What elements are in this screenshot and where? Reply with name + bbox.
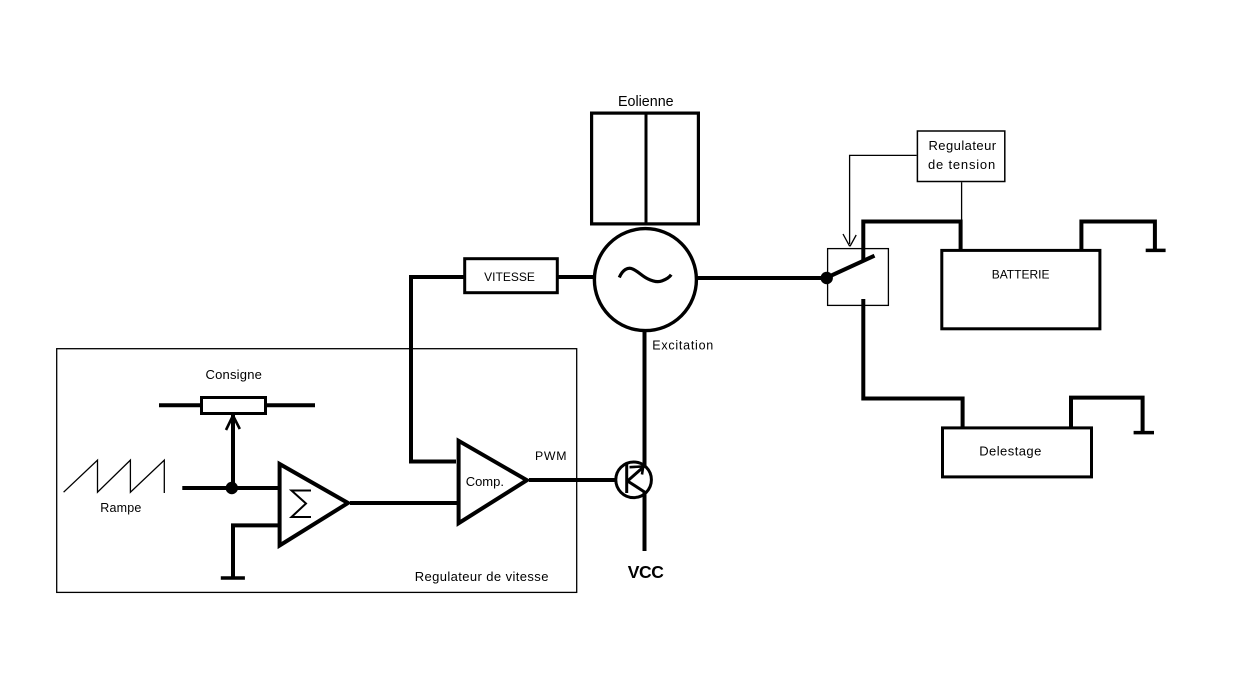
wire VITESSE to comparator [411,277,464,462]
generator G1 [594,229,696,331]
transistor Q1 body [616,462,652,498]
svg-text:Regulateur: Regulateur [928,138,996,153]
regulator box Regulateur de tension [917,131,1004,182]
VITESSE box [465,259,558,293]
sense wire regulator to bus [961,182,963,221]
svg-text:Eolienne: Eolienne [618,94,674,110]
VCC lead [643,492,647,551]
svg-text:Rampe: Rampe [100,501,141,515]
junction dot [821,272,833,284]
svg-text:PWM: PWM [535,449,567,463]
battery box [942,250,1100,328]
svg-text:Excitation: Excitation [652,339,714,353]
svg-text:VCC: VCC [628,562,665,582]
sigma symbol [292,491,312,518]
delestage box [943,428,1092,477]
ramp wire to summation [182,486,278,490]
battery ground bar [1146,249,1166,253]
control wire regulator to switch [850,155,917,244]
svg-text:Delestage: Delestage [979,444,1042,459]
junction dot wiper/ramp [226,482,238,494]
delestage ground bar [1134,431,1154,435]
wind turbine divider [645,113,648,224]
ground wire second input [233,525,278,576]
battery ground arm [1081,222,1155,250]
potentiometer left lead [159,403,200,407]
wire generator to switch node [697,276,827,280]
svg-text:de tension: de tension [928,157,996,172]
speed regulator enclosure [57,349,577,593]
transistor emitter diagonal [628,467,645,482]
svg-text:BATTERIE: BATTERIE [992,268,1050,282]
potentiometer right lead [267,403,315,407]
control arrowhead [843,234,856,246]
wire VITESSE to generator [557,275,594,279]
ramp waveform [64,460,165,493]
switch S1 box [828,249,889,306]
wire switch to delestage [863,299,962,427]
svg-text:VITESSE: VITESSE [484,270,535,284]
svg-text:Regulateur de vitesse: Regulateur de vitesse [415,569,549,584]
PWM wire [529,478,616,482]
wind turbine body [592,113,699,224]
wiper arrow shaft [231,415,235,491]
wire switch to battery [863,222,960,250]
comparator U2 [459,441,527,523]
transistor base bar [625,464,628,493]
excitation wire [643,332,647,467]
transistor collector diagonal [628,481,646,493]
svg-text:Comp.: Comp. [466,474,504,489]
ground bar [221,576,245,580]
svg-text:Consigne: Consigne [206,367,263,382]
delestage ground arm [1071,398,1143,431]
switch blade [827,256,875,278]
summation amp U1 [280,464,348,546]
potentiometer body [202,398,266,414]
sine symbol [619,268,671,281]
transistor emitter arrowhead [630,466,644,474]
wiper arrowhead [226,416,240,430]
summation output wire [350,501,457,505]
switch top contact [861,220,865,262]
